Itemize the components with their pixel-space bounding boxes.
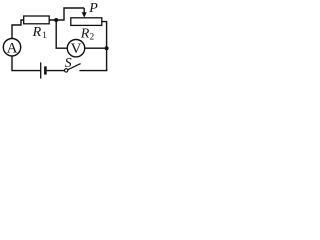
- wire: voltmeter right lead to right edge: [85, 47, 107, 49]
- wire: battery to switch contact: [47, 70, 65, 72]
- node junction dot at R1/voltmeter branch: [54, 18, 58, 22]
- ammeter A: [3, 39, 20, 56]
- svg-text:1: 1: [42, 30, 47, 40]
- svg-text:P: P: [88, 1, 98, 16]
- wire: left branch from ammeter top to R1 left lead: [12, 20, 24, 39]
- battery long plate: [40, 62, 42, 78]
- wire: switch to bottom-right corner: [79, 70, 107, 72]
- svg-text:R: R: [80, 27, 90, 42]
- rheostat R2: [71, 18, 102, 26]
- wiper arrow onto R2: [83, 8, 85, 13]
- battery short thick plate: [44, 66, 47, 74]
- svg-text:V: V: [71, 41, 82, 57]
- resistor R1: [24, 16, 50, 24]
- switch S contact circle: [65, 69, 68, 72]
- svg-text:A: A: [7, 40, 18, 56]
- wire: voltmeter branch left (from node down to V): [56, 20, 67, 48]
- node junction dot on right edge: [105, 46, 109, 50]
- svg-text:2: 2: [90, 31, 95, 41]
- svg-text:S: S: [65, 56, 72, 71]
- wire: R2 right lead and right edge down to bottom-right corner: [102, 22, 107, 71]
- svg-text:R: R: [32, 25, 42, 40]
- wire: ammeter bottom to bottom-left corner: [12, 56, 40, 71]
- switch S lever: [68, 64, 81, 70]
- wire: R1 right lead to top-right corner: [49, 8, 84, 20]
- voltmeter V: [67, 40, 84, 57]
